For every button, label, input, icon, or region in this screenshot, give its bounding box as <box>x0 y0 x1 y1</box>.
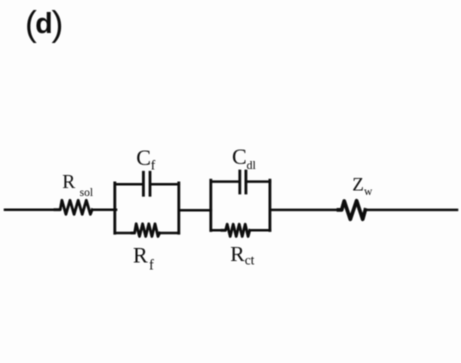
svg-text:w: w <box>364 186 373 198</box>
node box1 left vertical <box>113 183 116 233</box>
wire box1 top left segment <box>115 183 142 186</box>
label Rct <box>230 242 254 268</box>
resistor Rct <box>222 224 250 236</box>
wire box2 top right segment <box>247 180 270 183</box>
svg-text:): ) <box>52 3 64 43</box>
svg-text:R: R <box>230 242 245 266</box>
wire Rsol to box1 <box>93 208 116 211</box>
svg-text:R: R <box>62 172 75 193</box>
resistor Rf <box>132 224 160 237</box>
warburg element Zw <box>339 201 366 220</box>
wire right lead <box>365 209 457 212</box>
node box2 right vertical <box>268 180 271 230</box>
resistor Rsol <box>55 200 92 214</box>
svg-text:ct: ct <box>245 253 255 268</box>
svg-text:f: f <box>151 158 156 173</box>
svg-text:d: d <box>35 8 52 40</box>
wire box2 bottom right segment <box>251 229 270 232</box>
node box1 right vertical <box>177 183 180 233</box>
wire box1 to box2 <box>179 209 211 212</box>
wire box2 top left segment <box>211 180 238 183</box>
svg-text:C: C <box>232 144 247 169</box>
wire box1 top right segment <box>152 183 179 186</box>
label Rf <box>133 242 154 273</box>
node box2 left vertical <box>209 180 212 230</box>
svg-text:f: f <box>149 257 154 273</box>
svg-text:C: C <box>136 145 151 170</box>
wire left lead <box>5 208 57 211</box>
label Cf <box>136 145 156 173</box>
wire box1 bottom left segment <box>115 232 134 235</box>
wire box2 bottom left segment <box>211 229 225 232</box>
label Cdl <box>232 144 257 172</box>
label Zw <box>352 175 373 198</box>
svg-text:dl: dl <box>247 158 257 172</box>
wire box2 to Zw <box>270 209 342 212</box>
panel label (d) <box>25 3 63 43</box>
svg-text:Z: Z <box>352 175 364 196</box>
svg-text:R: R <box>133 242 148 267</box>
capacitor Cf <box>143 172 150 195</box>
svg-text:sol: sol <box>80 187 93 199</box>
capacitor Cdl <box>240 171 246 193</box>
wire box1 bottom right segment <box>160 232 178 235</box>
label Rsol <box>62 172 93 199</box>
